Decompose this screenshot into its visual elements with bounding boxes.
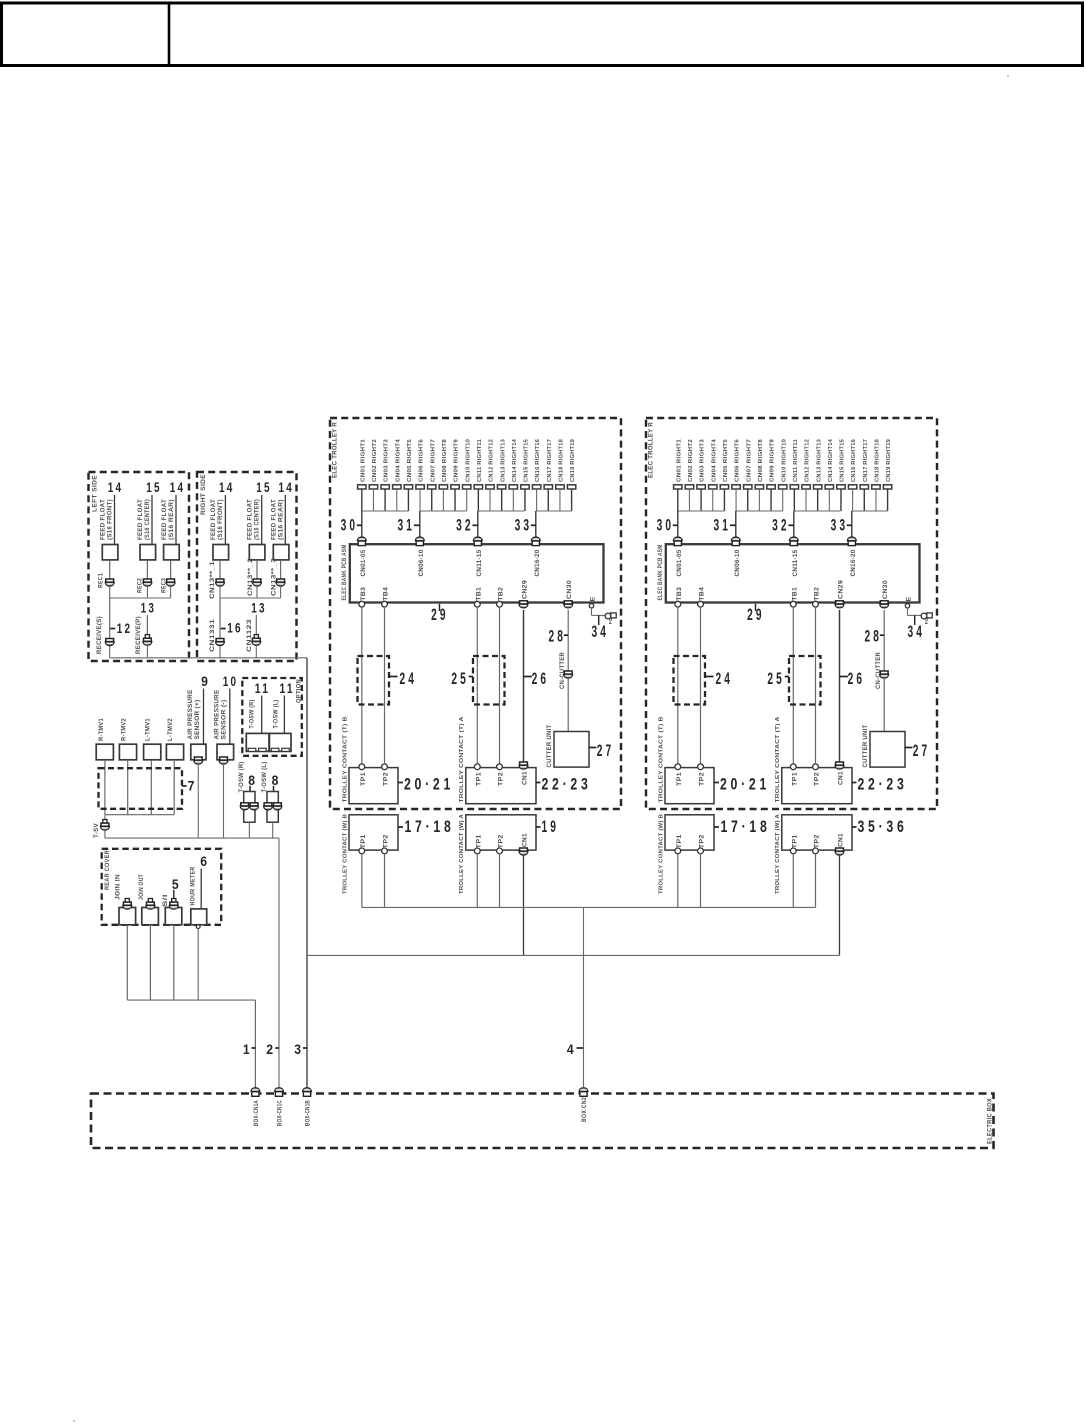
air pressure sensor (-) box	[217, 744, 234, 760]
wire 13 to CN1123	[255, 615, 257, 635]
svg-text:REAR COVER: REAR COVER	[104, 850, 111, 890]
trolley contact (W) B box (left)	[349, 815, 398, 850]
PCB plug CN11-15 (right)	[789, 537, 798, 546]
svg-text:HOUR METER: HOUR METER	[190, 866, 197, 905]
leader wire CN11 to PCB (left)	[477, 511, 479, 538]
feed float L1 box	[102, 545, 118, 560]
svg-text:15: 15	[146, 480, 162, 495]
wire 3 vertical	[306, 658, 308, 1088]
wire REC2 to bus	[146, 587, 148, 598]
wire hour meter down	[197, 929, 199, 1001]
wire REC1 to bus	[109, 587, 111, 598]
connector CN14 (right)	[825, 485, 833, 489]
connector RECEIVE(S)	[105, 639, 114, 646]
connector CN-CUTTER (right)	[880, 671, 889, 678]
tick 27 (left)	[589, 747, 596, 749]
bus B CN1 wires to wire 3	[307, 954, 840, 956]
svg-text:TROLLEY CONTACT (W) A: TROLLEY CONTACT (W) A	[459, 813, 465, 894]
connector CN06 (right)	[732, 485, 740, 489]
group bus 33 (left)	[536, 510, 572, 512]
svg-text:25: 25	[767, 670, 785, 688]
hour meter pin	[196, 925, 200, 929]
svg-text:ELEC TROLLEY R: ELEC TROLLEY R	[648, 422, 655, 478]
svg-text:CN06 RIGHT6: CN06 RIGHT6	[735, 438, 741, 482]
svg-text:CN14 RIGHT14: CN14 RIGHT14	[512, 438, 518, 482]
svg-text:CN13**_1: CN13**_1	[209, 561, 216, 599]
wire CN11 drop (left)	[477, 489, 479, 511]
title block divider	[168, 3, 171, 66]
svg-text:34: 34	[592, 623, 610, 641]
svg-text:REC2: REC2	[137, 578, 144, 593]
svg-text:6: 6	[200, 854, 207, 869]
svg-text:CN17 RIGHT17: CN17 RIGHT17	[863, 438, 869, 482]
svg-text:CN06-10: CN06-10	[734, 549, 741, 576]
wire CN07 drop (left)	[431, 489, 433, 511]
connector T-SV	[103, 820, 107, 824]
pin TB2 (right)	[813, 601, 819, 607]
svg-text:(S16 FRONT): (S16 FRONT)	[217, 499, 224, 540]
connector CN01 (right)	[674, 485, 682, 489]
wire CN16 drop (right)	[852, 489, 854, 511]
T-OSW (R) connector pair	[240, 803, 249, 810]
connector CN19 (right)	[883, 485, 891, 489]
svg-text:CN03 RIGHT3: CN03 RIGHT3	[384, 438, 390, 482]
svg-text:14: 14	[219, 480, 235, 495]
connector CN13 (right)	[813, 485, 821, 489]
wire CN14 drop (right)	[828, 489, 830, 511]
tick 17-18 (left)	[398, 826, 403, 828]
tick right WA number	[852, 826, 857, 828]
wire 4 vertical (bus A to BOX CN2)	[583, 907, 585, 1087]
wire T-OSW (R) to main bus	[248, 822, 250, 838]
connector under sensor (-)	[219, 757, 228, 764]
svg-text:CN1: CN1	[838, 771, 845, 785]
wire 10 to air pressure sensor (-)	[229, 689, 231, 745]
svg-text:FEED FLOAT: FEED FLOAT	[137, 499, 144, 540]
svg-text:R-TMV2: R-TMV2	[121, 718, 128, 741]
svg-text:TP2: TP2	[814, 772, 821, 786]
wire CN05 drop (left)	[407, 489, 409, 511]
svg-text:(S16 REAR): (S16 REAR)	[168, 499, 175, 540]
bus A trolley TP wires	[362, 906, 816, 908]
svg-text:CUTTER UNIT: CUTTER UNIT	[862, 725, 869, 768]
connector CN16 (right)	[848, 485, 856, 489]
wire CN04 drop (right)	[712, 489, 714, 511]
wire CN13**_2 to bus	[256, 587, 258, 598]
R-TMV1 box	[96, 744, 113, 760]
main bus (T-SV/sensors/T-OSW)	[105, 837, 279, 839]
wire 11 to T-OSW(R) option	[261, 696, 263, 734]
wire TP1 (W)B to bus A (left)	[361, 854, 363, 908]
wire TP2 (W)B to bus A (right)	[700, 854, 702, 908]
svg-text:17·18: 17·18	[721, 818, 771, 836]
svg-text:(S16 REAR): (S16 REAR)	[278, 499, 285, 540]
svg-text:CN19 RIGHT19: CN19 RIGHT19	[570, 438, 576, 482]
svg-text:CN29: CN29	[838, 580, 845, 599]
tick 29 (left)	[439, 604, 441, 611]
svg-text:S/I: S/I	[162, 894, 169, 907]
ELEC BANK PCB ASM box (right)	[666, 544, 920, 602]
svg-text:FEED FLOAT: FEED FLOAT	[247, 499, 254, 540]
connector JOIN OUT	[148, 899, 152, 903]
tick 28 (right)	[880, 634, 884, 636]
svg-text:CN19 RIGHT19: CN19 RIGHT19	[886, 438, 892, 482]
wire TP1 (W)A to bus A (right)	[792, 854, 794, 908]
svg-text:20·21: 20·21	[404, 776, 454, 794]
wire CN06 drop (right)	[735, 489, 737, 511]
svg-text:ELEC TROLLEY R: ELEC TROLLEY R	[332, 422, 339, 478]
tick 26 (right)	[840, 676, 848, 678]
pin TB1 (right)	[790, 601, 796, 607]
svg-text:8: 8	[248, 773, 255, 788]
pin TB4 (left)	[382, 601, 388, 607]
tick left WA number	[536, 826, 541, 828]
wire CN12 drop (right)	[805, 489, 807, 511]
svg-text:JOIN OUT: JOIN OUT	[138, 874, 145, 900]
tick 7	[182, 785, 186, 787]
svg-text:FEED FLOAT: FEED FLOAT	[210, 499, 217, 540]
wire 13 to RECEIVE(P)	[146, 615, 148, 635]
svg-text:CN16-20: CN16-20	[534, 549, 541, 576]
svg-text:T-SV: T-SV	[93, 822, 100, 838]
svg-text:R-TMV1: R-TMV1	[98, 718, 105, 741]
svg-text:CN04 RIGHT4: CN04 RIGHT4	[395, 438, 401, 482]
wire CN13**_3 to bus	[280, 587, 282, 598]
wire CN-CUTTER to cutter unit (left)	[567, 679, 569, 732]
wire CN1 (W)A to bus B (right)	[839, 855, 841, 955]
svg-text:CN01-05: CN01-05	[676, 549, 683, 576]
svg-text:CN18 RIGHT18: CN18 RIGHT18	[559, 438, 565, 482]
tick 34 (left)	[598, 615, 600, 625]
ELEC BANK PCB ASM box (left)	[350, 544, 604, 602]
wire CN04 drop (left)	[396, 489, 398, 511]
PCB plug CN01-05 (right)	[673, 537, 682, 546]
JOIN IN box	[119, 908, 136, 925]
svg-text:30: 30	[341, 517, 359, 535]
feed float R3 box	[273, 545, 289, 560]
connector CN13**_3	[276, 579, 285, 586]
connector CN09 (left)	[451, 485, 459, 489]
svg-text:CN1331: CN1331	[209, 619, 216, 652]
svg-text:REC3: REC3	[161, 578, 168, 593]
ELECTRIC BOX enclosure	[91, 1094, 994, 1149]
connector CN1 (W)A (right)	[835, 848, 844, 855]
svg-text:CN30: CN30	[566, 580, 573, 599]
wire L-TMV2 down	[173, 760, 175, 815]
svg-text:26: 26	[848, 670, 866, 688]
wire TMV bus to T-SV	[104, 815, 106, 820]
svg-text:(S16 CENTER): (S16 CENTER)	[144, 499, 151, 540]
tick 8 T-OSW (L)	[273, 786, 275, 792]
wire S/I down	[173, 925, 175, 1000]
connector CN13**_1	[216, 579, 225, 586]
tick 31 (right)	[730, 524, 736, 526]
connector CN07 (left)	[428, 485, 436, 489]
wire TB1 to trolley contact (T)A (left)	[476, 607, 478, 764]
wire 15 to feed float R2	[261, 495, 263, 545]
wire TB4 to trolley contact (T)B (right)	[700, 607, 702, 764]
svg-text:CN09 RIGHT9: CN09 RIGHT9	[770, 438, 776, 482]
wire R-TMV2 down	[127, 760, 129, 815]
group bus 30 (left)	[362, 510, 409, 512]
svg-text:CN29: CN29	[522, 580, 529, 599]
svg-text:8: 8	[272, 773, 279, 788]
FG terminal (right)	[921, 613, 932, 619]
leader wire CN11 to PCB (right)	[793, 511, 795, 538]
FG terminal (left)	[605, 613, 616, 619]
connector CN19 (left)	[567, 485, 575, 489]
connector CN10 (right)	[778, 485, 786, 489]
svg-text:22·23: 22·23	[542, 776, 592, 794]
wire feed float R3 to CN13**_3	[280, 560, 282, 579]
wire CN13 drop (left)	[501, 489, 503, 511]
wire TB1 to trolley contact (T)A (right)	[792, 607, 794, 764]
svg-text:TP2: TP2	[814, 834, 821, 848]
wire CN17 drop (right)	[863, 489, 865, 511]
svg-text:OPTION: OPTION	[295, 679, 302, 703]
tick 20-21 (left)	[398, 782, 403, 784]
svg-text:35·36: 35·36	[858, 818, 908, 836]
wire 14 to feed float R1	[224, 495, 226, 545]
connector CN1 (T)A (left)	[519, 762, 528, 769]
feed float R1 box	[213, 545, 229, 560]
svg-text:31: 31	[398, 517, 416, 535]
svg-text:CN10 RIGHT10: CN10 RIGHT10	[465, 438, 471, 482]
connector CN1123	[254, 635, 258, 639]
svg-text:CN13**_3: CN13**_3	[270, 558, 277, 596]
wire TP1 (W)B to bus A (right)	[677, 854, 679, 908]
connector CN18 (right)	[872, 485, 880, 489]
svg-text:CN30: CN30	[882, 580, 889, 599]
svg-text:T-OSW (R): T-OSW (R)	[238, 762, 245, 793]
bottom bus left/right side to wire 3	[110, 657, 307, 659]
wire sensor (+) to main bus	[197, 764, 199, 838]
PCB plug CN30 (right)	[880, 601, 889, 608]
svg-text:33: 33	[515, 517, 533, 535]
svg-text:9: 9	[201, 674, 208, 689]
svg-text:13: 13	[251, 601, 267, 616]
connector REC3	[166, 579, 175, 586]
pin TB3 (right)	[675, 601, 681, 607]
wire CN11 drop (right)	[793, 489, 795, 511]
wire CN10 drop (right)	[782, 489, 784, 511]
svg-text:CN1123: CN1123	[246, 619, 253, 652]
svg-text:CN10 RIGHT10: CN10 RIGHT10	[781, 438, 787, 482]
wire CN16 drop (left)	[536, 489, 538, 511]
wire 9 to air pressure sensor (+)	[203, 689, 205, 745]
svg-text:CN11 RIGHT11: CN11 RIGHT11	[793, 438, 799, 482]
svg-text:CN05 RIGHT5: CN05 RIGHT5	[407, 438, 413, 482]
svg-text:TP2: TP2	[699, 772, 706, 786]
wire JOIN IN down	[126, 925, 128, 1000]
tick 34 (right)	[914, 615, 916, 625]
wire L-TMV1 down	[150, 760, 152, 815]
wire E to FG (right)	[908, 614, 922, 616]
dashed box 24 (right)	[674, 656, 706, 705]
svg-text:TB3: TB3	[676, 586, 683, 600]
svg-text:CN07 RIGHT7: CN07 RIGHT7	[430, 438, 436, 482]
svg-text:10: 10	[223, 674, 239, 689]
PCB plug CN29 (right)	[835, 601, 844, 608]
tick 20-21 (right)	[714, 782, 719, 784]
wire CN17 drop (left)	[547, 489, 549, 511]
LEFT SIDE enclosure	[89, 472, 190, 661]
svg-text:CN11 RIGHT11: CN11 RIGHT11	[477, 438, 483, 482]
pin TB1 (left)	[474, 601, 480, 607]
svg-text:5: 5	[172, 877, 179, 892]
tick 22-23 (left)	[536, 782, 541, 784]
wire CN10 drop (left)	[466, 489, 468, 511]
connector CN11 (left)	[474, 485, 482, 489]
wire CN15 drop (left)	[524, 489, 526, 511]
wire JOIN OUT down	[149, 925, 151, 1000]
wire CN29 to CN1 (T)A (left)	[523, 610, 525, 762]
wire CN06 drop (left)	[419, 489, 421, 511]
tick 8 T-OSW (R)	[249, 786, 251, 792]
tick 28 (left)	[564, 634, 568, 636]
wire sensor (-) to main bus	[223, 764, 225, 838]
svg-text:BOX CN2: BOX CN2	[581, 1097, 588, 1122]
svg-text:L-TMV2: L-TMV2	[167, 718, 174, 741]
connector CN02 (right)	[685, 485, 693, 489]
PCB plug CN01-05 (left)	[357, 537, 366, 546]
svg-text:CN01 RIGHT1: CN01 RIGHT1	[360, 438, 366, 482]
tick 33 (right)	[847, 524, 852, 526]
svg-text:27: 27	[597, 742, 615, 760]
svg-text:16: 16	[227, 621, 243, 636]
title block table	[2, 3, 1083, 66]
svg-text:34: 34	[908, 623, 926, 641]
trolley contact (W) A box (left)	[466, 815, 536, 850]
svg-text:TP1: TP1	[360, 772, 367, 786]
svg-text:TB4: TB4	[699, 586, 706, 600]
svg-text:BOX-CN1C: BOX-CN1C	[277, 1100, 284, 1126]
group bus 32 (left)	[478, 510, 525, 512]
svg-text:CN05 RIGHT5: CN05 RIGHT5	[723, 438, 729, 482]
wire TB2 to trolley contact (T)A (right)	[815, 607, 817, 764]
svg-text:TB2: TB2	[498, 586, 505, 600]
TMV bus	[105, 814, 174, 816]
svg-text:CN01 RIGHT1: CN01 RIGHT1	[676, 438, 682, 482]
svg-text:27: 27	[913, 742, 931, 760]
svg-text:1: 1	[243, 1042, 250, 1057]
svg-text:TP1: TP1	[360, 834, 367, 848]
tick 22-23 (right)	[852, 782, 857, 784]
svg-text:REC1: REC1	[97, 573, 104, 588]
T-OSW (L) connector pair	[264, 803, 273, 810]
svg-text:11: 11	[255, 681, 271, 696]
pins TP1 TP2 (T)A (left)	[474, 764, 480, 770]
wire T-OSW (L) to main bus	[272, 822, 274, 838]
wire 2 vertical	[278, 838, 280, 1087]
rear cover bus	[127, 999, 255, 1001]
svg-text:3: 3	[294, 1042, 301, 1057]
svg-text:AIR PRESSURE: AIR PRESSURE	[187, 690, 194, 740]
svg-text:24: 24	[399, 670, 417, 688]
pins TP1 TP2 (W)B (right)	[675, 848, 681, 854]
trolley contact (T) B box (left)	[349, 768, 398, 804]
feed float R2 box	[249, 545, 265, 560]
RIGHT SIDE enclosure	[197, 472, 297, 661]
wire CN19 drop (left)	[571, 489, 573, 511]
svg-text:TB1: TB1	[791, 586, 798, 600]
svg-text:T-OSW (R): T-OSW (R)	[249, 700, 256, 729]
connector CN05 (right)	[720, 485, 728, 489]
leader wire CN16 to PCB (right)	[851, 511, 853, 538]
S/I box	[165, 908, 182, 925]
wire CN18 drop (right)	[875, 489, 877, 511]
trolley contact (T) A box (left)	[466, 768, 536, 804]
wire CN1 (W)A to bus B (left)	[523, 855, 525, 955]
svg-text:JOIN IN: JOIN IN	[115, 874, 122, 900]
svg-text:TP2: TP2	[699, 834, 706, 848]
pins TP1 TP2 (W)B (left)	[359, 848, 365, 854]
wire CN1331 to bottom bus	[219, 646, 221, 658]
svg-text:SENSOR (+): SENSOR (+)	[194, 700, 201, 740]
svg-text:33: 33	[831, 517, 849, 535]
connector REC1	[105, 579, 114, 586]
svg-text:30: 30	[657, 517, 675, 535]
tick 17-18 (right)	[714, 826, 719, 828]
svg-text:32: 32	[456, 517, 474, 535]
tick 27 (right)	[905, 747, 912, 749]
tick 12	[110, 628, 115, 630]
wire CN02 drop (left)	[372, 489, 374, 511]
wire E down (left)	[591, 608, 593, 615]
svg-text:13: 13	[141, 601, 157, 616]
leader wire CN01 to PCB (right)	[677, 511, 679, 538]
connector CN03 (left)	[381, 485, 389, 489]
svg-text:CN08 RIGHT8: CN08 RIGHT8	[442, 438, 448, 482]
svg-text:4: 4	[567, 1042, 574, 1057]
connector BOX-CN1B	[303, 1088, 312, 1097]
svg-text:CN15 RIGHT15: CN15 RIGHT15	[840, 438, 846, 482]
wire 15 to feed float L2	[151, 495, 153, 545]
hour meter box	[191, 909, 207, 925]
svg-text:CN1: CN1	[522, 833, 529, 847]
svg-text:TP1: TP1	[676, 772, 683, 786]
svg-text:CN12 RIGHT12: CN12 RIGHT12	[805, 438, 811, 482]
connector CN09 (right)	[767, 485, 775, 489]
svg-text:12: 12	[117, 621, 133, 636]
wire TB4 to trolley contact (T)B (left)	[384, 607, 386, 764]
wire CN1123 to bottom bus	[255, 646, 257, 658]
connector CN17 (left)	[544, 485, 552, 489]
svg-text:22·23: 22·23	[858, 776, 908, 794]
svg-text:7: 7	[188, 779, 195, 794]
svg-text:CN04 RIGHT4: CN04 RIGHT4	[711, 438, 717, 482]
wire CN30 to CN-CUTTER (left)	[567, 610, 569, 671]
leader wire CN16 to PCB (left)	[535, 511, 537, 538]
svg-text:TB3: TB3	[360, 586, 367, 600]
tick 24 (right)	[705, 676, 714, 678]
wire CN12 drop (left)	[489, 489, 491, 511]
connector CN15 (left)	[521, 485, 529, 489]
T-OSW (R) switch body	[244, 792, 255, 823]
svg-text:CN18 RIGHT18: CN18 RIGHT18	[875, 438, 881, 482]
svg-text:CN1: CN1	[838, 833, 845, 847]
connector REC2	[143, 579, 152, 586]
svg-text:32: 32	[772, 517, 790, 535]
svg-text:BOX-CN1A: BOX-CN1A	[253, 1100, 260, 1126]
svg-text:E: E	[589, 597, 596, 602]
connector CN16 (left)	[532, 485, 540, 489]
wire CN05 drop (right)	[723, 489, 725, 511]
pins TP1 TP2 (T)A (right)	[790, 764, 796, 770]
svg-text:TP1: TP1	[475, 772, 482, 786]
connector CN11 (right)	[790, 485, 798, 489]
svg-text:CN15 RIGHT15: CN15 RIGHT15	[524, 438, 530, 482]
